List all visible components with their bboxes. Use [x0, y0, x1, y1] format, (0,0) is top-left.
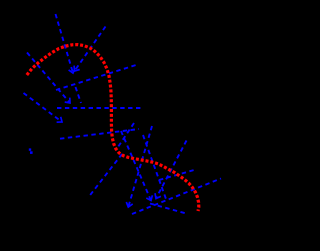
red trajectory — [27, 45, 199, 211]
beam S4 — [143, 135, 166, 199]
beam K1 — [155, 141, 187, 199]
beam S1 — [56, 14, 76, 73]
beam E — [89, 154, 122, 197]
stray dots — [29, 148, 31, 150]
beam L34 — [24, 93, 63, 122]
beam X1 — [76, 87, 82, 103]
beam J — [150, 204, 188, 215]
beam F — [159, 170, 194, 180]
beam S2 — [74, 27, 105, 72]
beam W1 — [27, 53, 70, 104]
beam A — [57, 107, 142, 109]
beam V1 — [126, 126, 152, 207]
beam C1 — [121, 131, 152, 201]
beam D1 — [116, 123, 134, 150]
beam G — [132, 179, 221, 215]
beam R1 — [56, 65, 136, 90]
beam B — [60, 129, 139, 139]
